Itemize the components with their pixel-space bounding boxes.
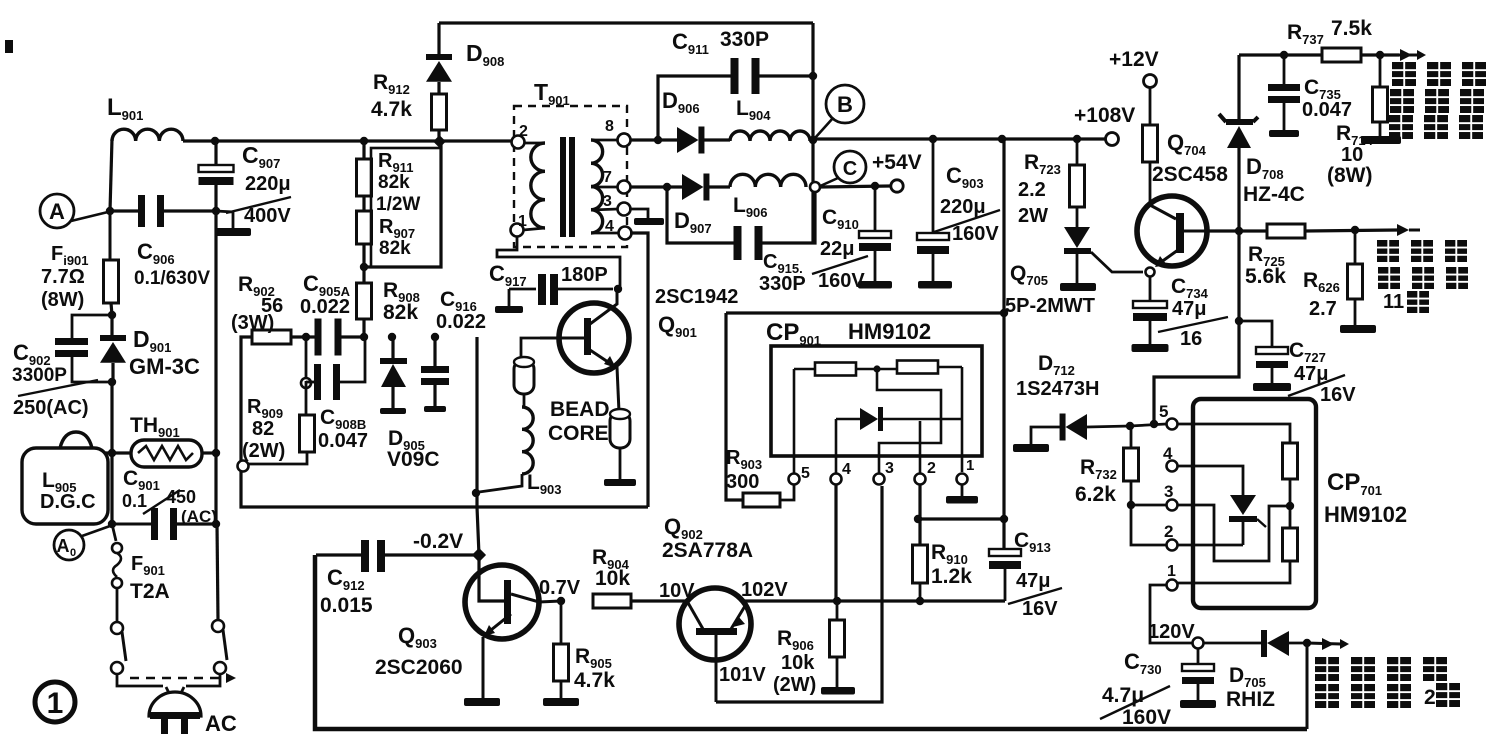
svg-text:400V: 400V bbox=[244, 205, 291, 227]
capacitor C916 0.022 bbox=[421, 288, 486, 412]
page marker circled 1 bbox=[35, 682, 75, 722]
transistor Q704 2SC458 bbox=[1137, 130, 1228, 277]
zener diode D905 V09C bbox=[380, 333, 440, 471]
svg-text:HZ-4C: HZ-4C bbox=[1243, 183, 1305, 206]
diode D712 1S2473H bbox=[1013, 352, 1166, 452]
svg-text:0.7V: 0.7V bbox=[539, 577, 581, 599]
thermistor TH901 bbox=[130, 414, 202, 467]
svg-text:HM9102: HM9102 bbox=[848, 319, 931, 344]
svg-text:6.2k: 6.2k bbox=[1075, 483, 1116, 506]
wire top feedback line D908 to C911 bbox=[439, 21, 813, 24]
capacitor C911 330P bbox=[672, 28, 817, 94]
svg-text:16V: 16V bbox=[1320, 384, 1356, 406]
capacitor C903 220u 160V bbox=[917, 139, 1000, 289]
svg-text:5.6k: 5.6k bbox=[1245, 265, 1286, 288]
svg-text:(AC): (AC) bbox=[181, 507, 217, 526]
svg-text:2SC2060: 2SC2060 bbox=[375, 656, 463, 679]
svg-text:V09C: V09C bbox=[387, 448, 440, 471]
svg-text:1: 1 bbox=[1167, 563, 1176, 580]
svg-text:0.047: 0.047 bbox=[1302, 99, 1352, 121]
inductor L903 bbox=[479, 407, 562, 497]
wire Q704 base row to R725 bbox=[1207, 227, 1267, 235]
wire ground bus bottom bbox=[315, 555, 1307, 729]
svg-text:7: 7 bbox=[603, 169, 612, 186]
resistor R909 82 2W bbox=[242, 388, 315, 464]
svg-text:10k: 10k bbox=[595, 567, 630, 590]
node A0 circle bbox=[54, 526, 110, 560]
svg-text:82k: 82k bbox=[379, 238, 411, 259]
diode D907 bbox=[674, 174, 730, 237]
wire CP901 pin2 down and C913 branch bbox=[914, 485, 1008, 545]
svg-text:A: A bbox=[57, 536, 70, 556]
svg-text:7.7Ω: 7.7Ω bbox=[41, 266, 85, 288]
svg-text:101V: 101V bbox=[719, 664, 766, 686]
svg-text:82k: 82k bbox=[383, 301, 418, 324]
svg-text:5P-2MWT: 5P-2MWT bbox=[1005, 295, 1095, 317]
wire main rail node B to +108V terminal bbox=[815, 104, 1135, 146]
resistor Fi901 7.7ohm 8W bbox=[41, 211, 119, 315]
svg-text:5: 5 bbox=[801, 465, 810, 482]
svg-text:47μ: 47μ bbox=[1294, 363, 1328, 385]
resistor R725 5.6k bbox=[1245, 224, 1399, 288]
resistor R904 10k bbox=[592, 546, 695, 608]
resistor R737 7.5k bbox=[1287, 17, 1399, 62]
svg-text:4: 4 bbox=[605, 218, 614, 235]
svg-text:+108V: +108V bbox=[1074, 104, 1135, 127]
CP701 pins bbox=[1159, 402, 1178, 591]
svg-text:3: 3 bbox=[1164, 482, 1173, 501]
svg-text:16: 16 bbox=[1180, 328, 1202, 350]
resistor R626 2.7 bbox=[1303, 230, 1376, 333]
transformer T901 secondary winding bbox=[591, 118, 632, 240]
wire Q902 collector to CP901 pin3 bbox=[716, 486, 882, 702]
svg-text:+12V: +12V bbox=[1109, 48, 1159, 71]
bead core on Q901 emitter with ground bbox=[548, 398, 636, 486]
resistor R908 82k bbox=[357, 267, 420, 341]
svg-text:450: 450 bbox=[166, 487, 196, 507]
arrow to frame module pin 11 bbox=[1397, 224, 1420, 236]
svg-text:0.022: 0.022 bbox=[436, 311, 486, 333]
svg-text:2SC458: 2SC458 bbox=[1152, 163, 1228, 186]
svg-text:(8W): (8W) bbox=[41, 289, 84, 311]
capacitor C912 0.015 bbox=[316, 540, 477, 617]
inductor L906 bbox=[730, 174, 806, 220]
capacitor C913 47u 16V bbox=[989, 529, 1062, 620]
svg-text:2: 2 bbox=[1424, 686, 1436, 709]
capacitor C906 bbox=[106, 195, 220, 289]
svg-text:CORE: CORE bbox=[548, 422, 609, 445]
svg-text:160V: 160V bbox=[1122, 706, 1171, 729]
svg-text:11: 11 bbox=[1383, 291, 1404, 313]
bead on Q901 base bbox=[514, 338, 540, 407]
CP701 internal resistors bbox=[1178, 424, 1298, 583]
svg-text:3: 3 bbox=[885, 460, 894, 477]
svg-text:1.2k: 1.2k bbox=[931, 565, 972, 588]
svg-text:82: 82 bbox=[252, 418, 274, 440]
svg-text:2SC1942: 2SC1942 bbox=[655, 286, 738, 308]
diode D901 bbox=[100, 315, 200, 386]
capacitor C902 bbox=[12, 311, 116, 419]
svg-text:82k: 82k bbox=[378, 172, 410, 193]
chinese note to line output tube emitter bbox=[1389, 62, 1486, 139]
transistor Q901 2SC1942 bbox=[540, 286, 738, 412]
resistor R906 10k 2W bbox=[773, 597, 855, 696]
svg-text:C: C bbox=[843, 158, 857, 180]
wire main rail L901 to T901 pin2 bbox=[183, 139, 512, 142]
svg-text:2SA778A: 2SA778A bbox=[662, 539, 753, 562]
svg-text:47μ: 47μ bbox=[1172, 298, 1206, 320]
svg-text:2: 2 bbox=[927, 460, 936, 477]
wire T901 pin1 to Q901 collector bbox=[497, 236, 622, 293]
svg-text:4.7μ: 4.7μ bbox=[1102, 684, 1144, 707]
svg-text:1/2W: 1/2W bbox=[376, 194, 420, 215]
chinese note to line output transformer bbox=[1315, 657, 1460, 709]
diode D705 RHIZ bbox=[1204, 630, 1311, 711]
capacitor C910 22u 160V bbox=[812, 186, 892, 292]
resistor R903 300 bbox=[726, 447, 794, 507]
diode D908 bbox=[426, 23, 504, 94]
zener diode D708 HZ-4C bbox=[1219, 55, 1305, 231]
resistor R732 6.2k bbox=[1075, 426, 1166, 545]
svg-text:220μ: 220μ bbox=[940, 196, 986, 218]
svg-text:HM9102: HM9102 bbox=[1324, 502, 1407, 527]
resistors R911 R907 stack with label box bbox=[357, 137, 442, 271]
svg-text:-0.2V: -0.2V bbox=[413, 530, 463, 553]
resistor R902 56 3W bbox=[231, 273, 315, 344]
CP901 internal pin2 stub bbox=[919, 421, 922, 474]
svg-text:(2W): (2W) bbox=[242, 440, 285, 462]
capacitor C905A 0.022 bbox=[300, 271, 364, 356]
svg-text:8: 8 bbox=[605, 118, 614, 135]
svg-text:0.1/630V: 0.1/630V bbox=[134, 268, 210, 289]
terminal +12V bbox=[1109, 48, 1159, 125]
resistor R714 10 8W bbox=[1327, 55, 1401, 187]
wire CP901 pin4 down to R906 node bbox=[834, 485, 837, 601]
svg-text:4: 4 bbox=[1163, 444, 1173, 463]
svg-text:A: A bbox=[49, 199, 65, 224]
svg-text:1: 1 bbox=[966, 457, 974, 474]
svg-text:AC: AC bbox=[205, 711, 237, 736]
svg-text:180P: 180P bbox=[561, 264, 608, 286]
capacitor C734 47u 16 bbox=[1132, 275, 1229, 352]
wire Q902 emitter row y601 bbox=[744, 599, 1005, 602]
svg-text:120V: 120V bbox=[1148, 621, 1195, 643]
svg-text:47μ: 47μ bbox=[1016, 570, 1050, 592]
power switch right pole bbox=[186, 620, 227, 686]
svg-text:(8W): (8W) bbox=[1327, 164, 1373, 187]
svg-text:RHIZ: RHIZ bbox=[1226, 688, 1275, 711]
svg-text:4.7k: 4.7k bbox=[371, 98, 412, 121]
transformer T901 dashed box bbox=[514, 106, 627, 247]
diode D906 bbox=[662, 88, 730, 154]
power switch left pole bbox=[111, 622, 163, 686]
svg-text:3: 3 bbox=[603, 193, 612, 210]
svg-text:2.2: 2.2 bbox=[1018, 179, 1046, 201]
CP701 internal thyristor bbox=[1178, 466, 1266, 545]
CP901 internal divider path to pin3 bbox=[877, 372, 941, 474]
svg-text:300: 300 bbox=[726, 471, 759, 493]
CP901 internal resistors bbox=[794, 361, 962, 475]
svg-text:220μ: 220μ bbox=[245, 173, 291, 195]
resistor at Q704 collector bbox=[1143, 125, 1158, 205]
wire pin7 row bbox=[630, 183, 682, 191]
svg-text:(2W): (2W) bbox=[773, 674, 816, 696]
wire -0.2V vertical x477 to Q903 base bbox=[413, 507, 504, 601]
fuse F901 T2A bbox=[112, 524, 170, 622]
node B circle bbox=[815, 85, 864, 138]
inductor L904 bbox=[730, 97, 810, 141]
chinese note to frame thick film module bbox=[1377, 240, 1468, 313]
svg-text:160V: 160V bbox=[952, 223, 999, 245]
CP901 pins bbox=[789, 457, 975, 485]
svg-text:4.7k: 4.7k bbox=[574, 669, 615, 692]
svg-text:330P: 330P bbox=[720, 28, 769, 51]
capacitor C727 47u 16V bbox=[1239, 321, 1356, 406]
degaussing coil L905 D.G.C bbox=[22, 432, 108, 524]
ground for T901 pin3 bbox=[629, 209, 664, 225]
capacitor C735 0.047 bbox=[1268, 55, 1352, 137]
svg-text:330P: 330P bbox=[759, 273, 806, 295]
resistor R905 4.7k bbox=[543, 597, 615, 706]
wire CP701 pin1 to 120V node bbox=[1148, 585, 1195, 643]
svg-text:1: 1 bbox=[518, 213, 527, 230]
arrow to line output transformer pin 2 bbox=[1307, 638, 1349, 729]
capacitor C907 bbox=[199, 137, 292, 227]
arrow to line output tube emitter bbox=[1399, 49, 1426, 61]
transistor Q902 2SA778A bbox=[662, 514, 788, 702]
wire CP901 supply box top y313 bbox=[726, 309, 1008, 500]
transformer T901 primary winding bbox=[511, 79, 570, 237]
capacitor C730 4.7u 160V bbox=[1100, 638, 1216, 730]
wire D901 to TH901 row bbox=[110, 382, 113, 453]
svg-text:0: 0 bbox=[70, 547, 76, 559]
capacitor C901 bbox=[108, 467, 220, 540]
svg-text:250(AC): 250(AC) bbox=[13, 397, 89, 419]
svg-text:0.022: 0.022 bbox=[300, 296, 350, 318]
CP901 internal diode bbox=[836, 407, 962, 474]
svg-text:0.1: 0.1 bbox=[122, 491, 147, 511]
labels D712 region Q705 bbox=[0, 0, 1, 1]
svg-text:10: 10 bbox=[1341, 144, 1363, 166]
svg-text:GM-3C: GM-3C bbox=[129, 354, 200, 379]
svg-text:16V: 16V bbox=[1022, 598, 1058, 620]
wire +54V branch bbox=[820, 151, 922, 192]
svg-text:0.015: 0.015 bbox=[320, 594, 373, 617]
wire +108V vertical x1004 bbox=[1002, 139, 1005, 549]
wire Q704 emitter node to D712 and C727 bbox=[1150, 231, 1243, 428]
resistor R723 2.2 2W bbox=[1018, 139, 1085, 227]
svg-text:7.5k: 7.5k bbox=[1331, 17, 1372, 40]
wire left vertical from L901 down to node A bbox=[110, 139, 112, 211]
capacitor C908B 0.047 bbox=[301, 337, 368, 452]
svg-text:3300P: 3300P bbox=[12, 365, 67, 386]
wire right vertical x813 top bbox=[809, 23, 817, 243]
svg-text:160V: 160V bbox=[818, 270, 865, 292]
svg-text:T2A: T2A bbox=[130, 580, 170, 603]
IC CP901 HM9102 box bbox=[766, 319, 982, 456]
inductor L901 bbox=[107, 94, 183, 141]
transformer T901 core bbox=[560, 137, 575, 237]
svg-text:0.047: 0.047 bbox=[318, 430, 368, 452]
wire feedback network left and bottom bbox=[238, 337, 649, 507]
wire top right rail R737 bbox=[1239, 51, 1322, 59]
wire C911 loop left vertical and pin8 row bbox=[618, 76, 733, 147]
svg-text:102V: 102V bbox=[741, 579, 788, 601]
ground for C907 bbox=[215, 211, 251, 236]
switch mechanical link dashed bbox=[130, 673, 236, 683]
AC plug bbox=[149, 687, 237, 736]
node C circle bbox=[810, 151, 866, 192]
svg-text:5: 5 bbox=[1159, 402, 1168, 421]
capacitor C915 330P loop bbox=[667, 187, 815, 295]
transistor Q903 2SC2060 bbox=[375, 565, 581, 706]
resistor R912 4.7k bbox=[371, 71, 447, 148]
thyristor Q705 5P-2MWT bbox=[1005, 227, 1143, 317]
ground for CP901 pin1 bbox=[946, 485, 978, 504]
svg-text:22μ: 22μ bbox=[820, 238, 854, 260]
svg-text:2.7: 2.7 bbox=[1309, 298, 1337, 320]
CP701 internal pin3 path bbox=[1178, 505, 1286, 561]
svg-text:D.G.C: D.G.C bbox=[40, 491, 96, 513]
svg-text:2: 2 bbox=[1164, 522, 1173, 541]
wire TH901 row bbox=[95, 449, 220, 524]
svg-text:BEAD: BEAD bbox=[550, 398, 610, 421]
svg-text:(3W): (3W) bbox=[231, 312, 274, 334]
svg-text:1: 1 bbox=[47, 687, 64, 720]
svg-text:4: 4 bbox=[842, 461, 851, 478]
wire right edge of oscillator loop x477 bbox=[472, 337, 480, 507]
node A circle bbox=[40, 194, 108, 228]
capacitor C917 180P bbox=[489, 261, 613, 313]
svg-text:10k: 10k bbox=[781, 652, 815, 674]
svg-text:+54V: +54V bbox=[872, 151, 922, 174]
svg-text:2: 2 bbox=[519, 123, 528, 140]
svg-text:1S2473H: 1S2473H bbox=[1016, 378, 1099, 400]
scan artifact mark bbox=[5, 40, 13, 53]
wire right vertical C906 row down to switch bbox=[214, 211, 217, 524]
wire T901 pin4 down right edge x648 bbox=[630, 233, 648, 507]
svg-text:B: B bbox=[837, 92, 853, 117]
resistor R910 1.2k bbox=[913, 541, 973, 605]
IC CP701 HM9102 box bbox=[1193, 399, 1407, 608]
svg-text:2W: 2W bbox=[1018, 205, 1048, 227]
